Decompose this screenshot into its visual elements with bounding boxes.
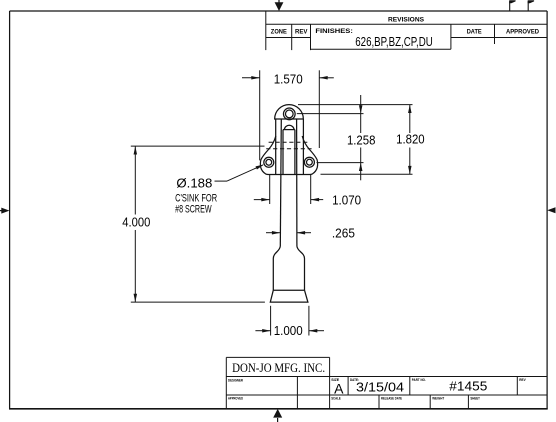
svg-text:APPROVED: APPROVED (506, 29, 539, 36)
svg-text:1.000: 1.000 (274, 324, 303, 338)
svg-text:APPROVED: APPROVED (228, 396, 243, 401)
svg-text:SHEET: SHEET (470, 396, 480, 401)
svg-text:DATE: DATE (467, 29, 482, 36)
svg-text:REVISIONS: REVISIONS (388, 17, 424, 24)
svg-text:626,BP,BZ,CP,DU: 626,BP,BZ,CP,DU (355, 34, 433, 49)
svg-text:ZONE: ZONE (271, 29, 287, 36)
svg-text:Ø.188: Ø.188 (176, 176, 212, 191)
svg-text:1.070: 1.070 (332, 193, 361, 207)
svg-text:RELEASE DATE: RELEASE DATE (381, 396, 402, 401)
svg-text:1.570: 1.570 (274, 73, 303, 87)
svg-text:#1455: #1455 (449, 379, 487, 394)
svg-text:REV: REV (295, 29, 308, 36)
svg-text:DON-JO MFG. INC.: DON-JO MFG. INC. (232, 360, 325, 375)
svg-text:3/15/04: 3/15/04 (356, 379, 404, 394)
svg-text:DESIGNER: DESIGNER (228, 377, 243, 382)
svg-text:A: A (334, 381, 344, 397)
svg-text:.265: .265 (332, 226, 355, 240)
svg-text:1.820: 1.820 (396, 132, 425, 146)
svg-text:1.258: 1.258 (347, 134, 376, 148)
svg-text:#8 SCREW: #8 SCREW (175, 204, 212, 216)
svg-text:WEIGHT: WEIGHT (432, 396, 444, 401)
svg-text:PART NO.: PART NO. (412, 377, 426, 382)
svg-text:REV: REV (519, 377, 526, 382)
svg-text:FINISHES:: FINISHES: (315, 28, 353, 35)
svg-text:4.000: 4.000 (122, 215, 150, 229)
